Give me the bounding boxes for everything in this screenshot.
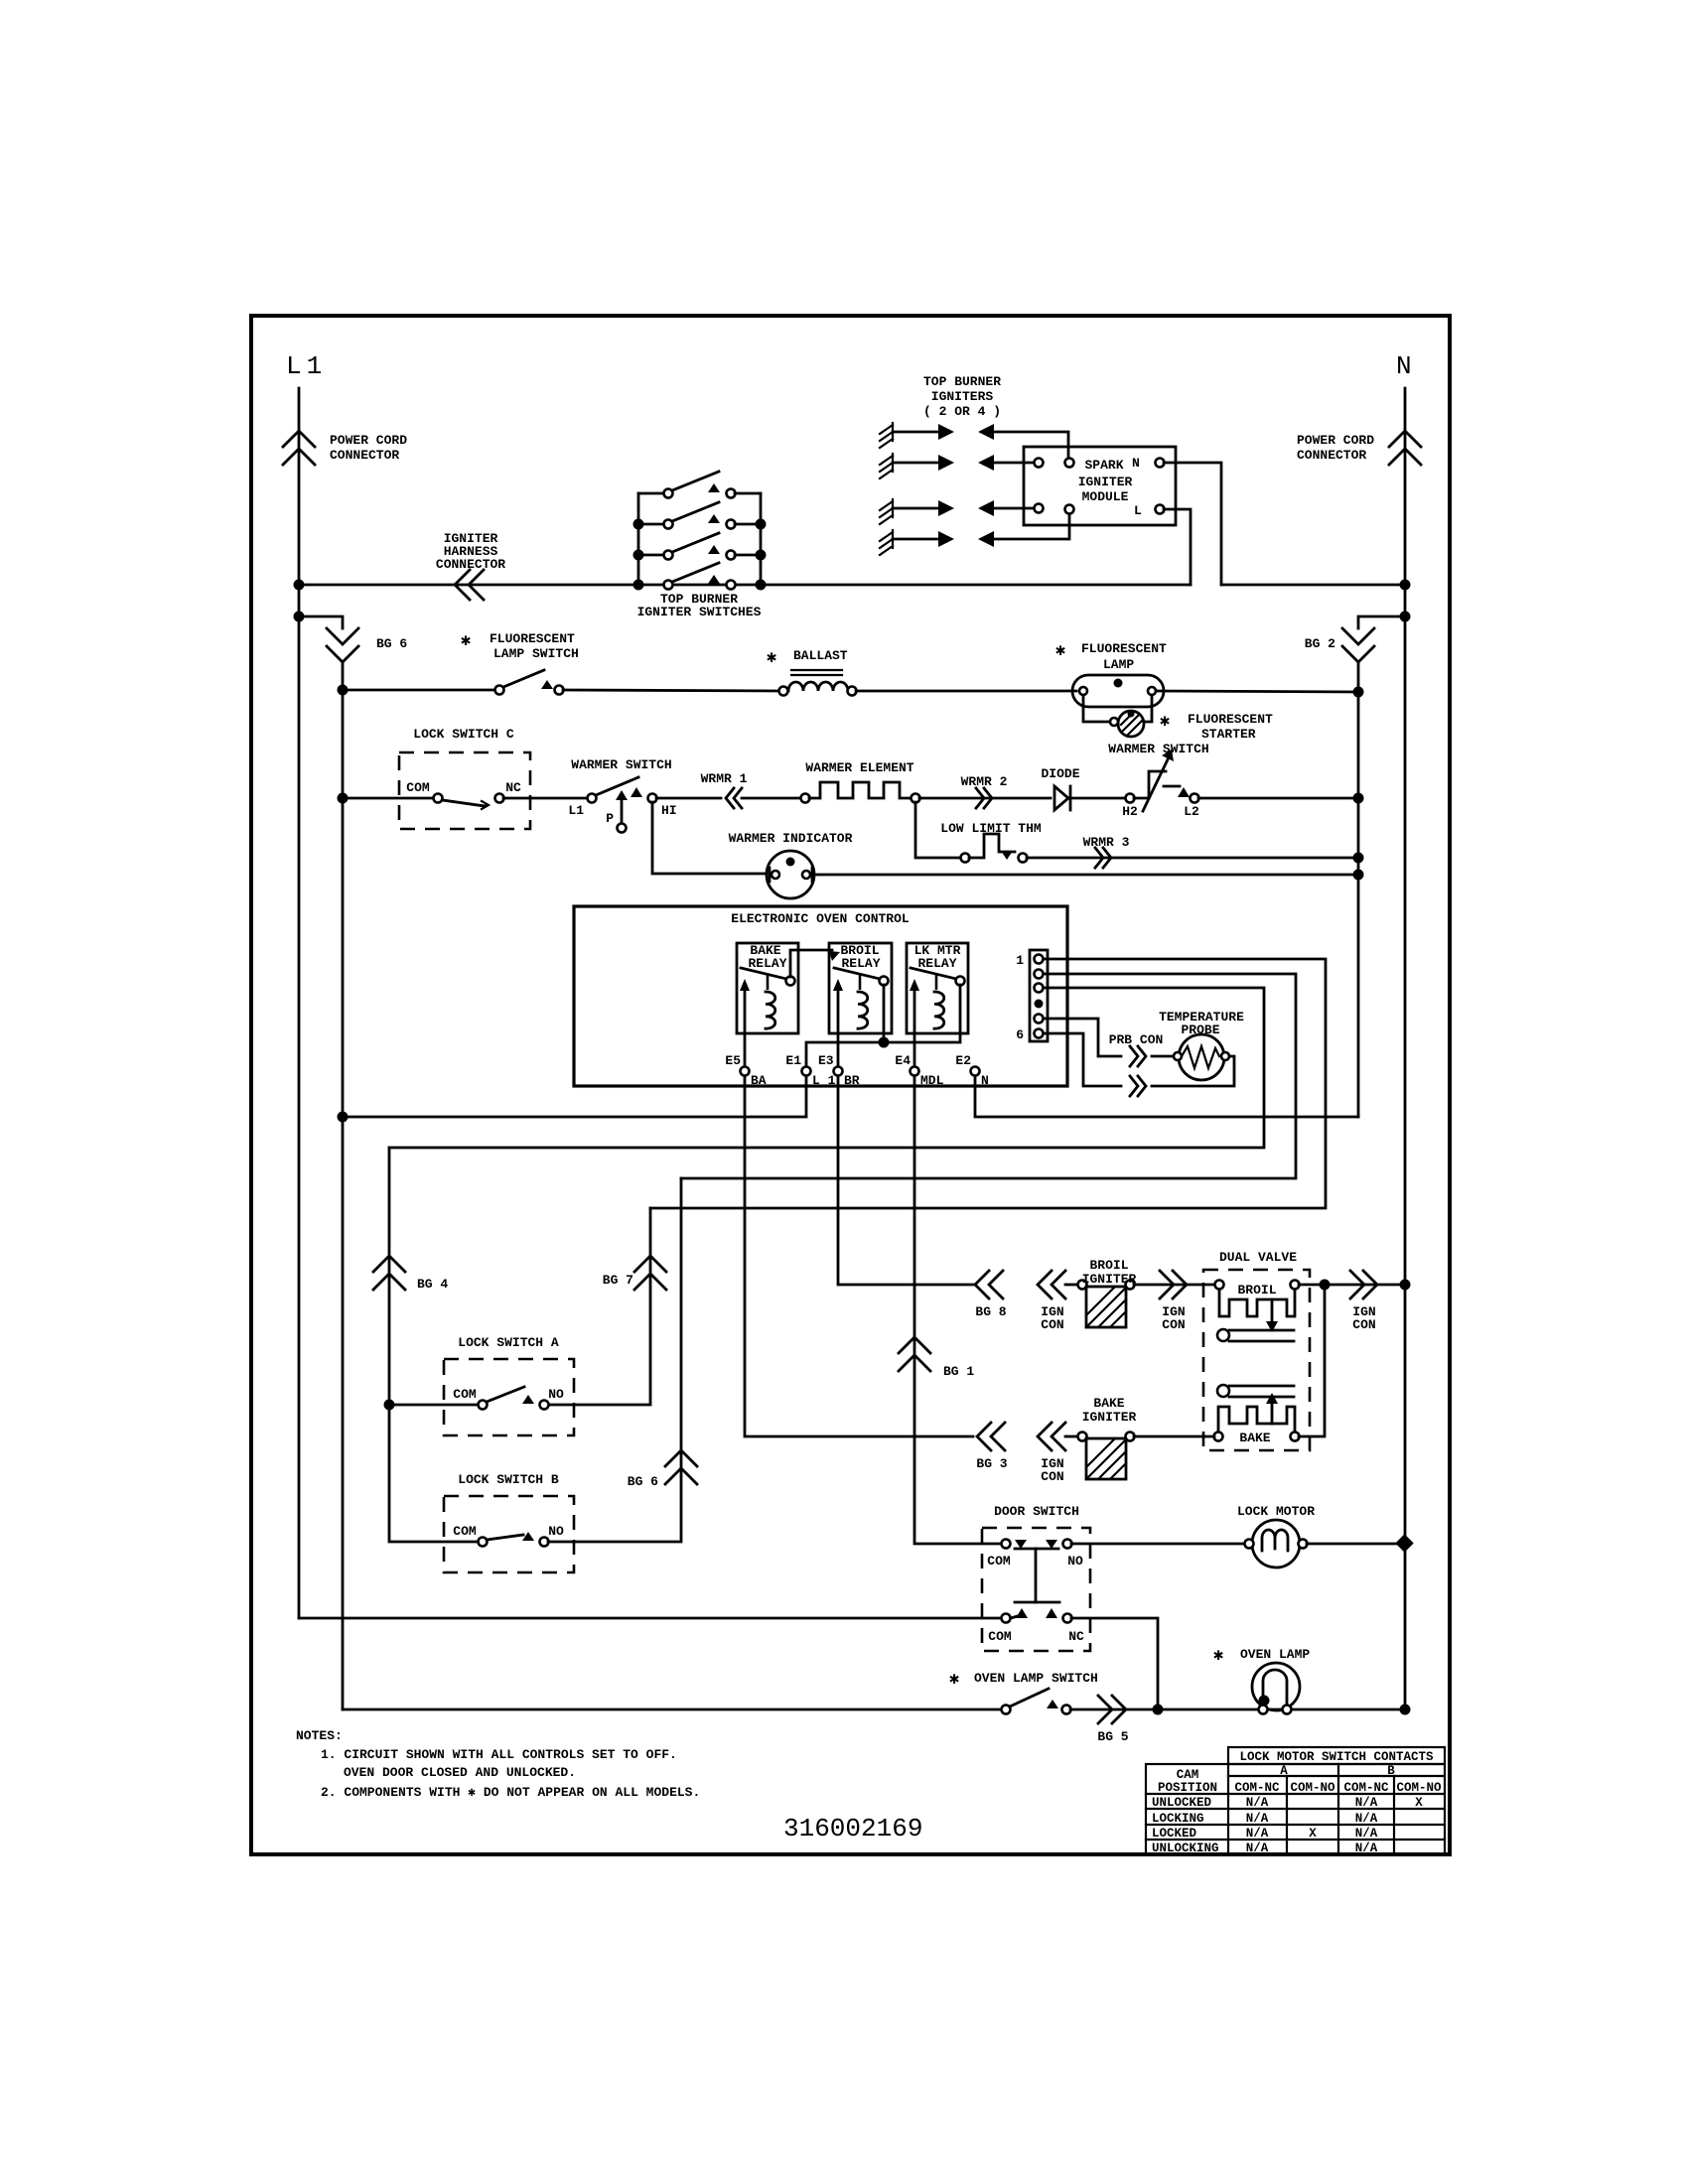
lock motor switch contacts table <box>1146 1747 1445 1855</box>
svg-text:LOCK SWITCH B: LOCK SWITCH B <box>458 1472 559 1487</box>
warmer indicator lamp <box>767 851 814 898</box>
svg-text:316002169: 316002169 <box>783 1814 922 1843</box>
svg-text:N/A: N/A <box>1355 1842 1378 1855</box>
svg-text:WARMER SWITCH: WARMER SWITCH <box>571 757 671 772</box>
wire bake relay to broil relay pivot <box>790 950 832 977</box>
svg-text:COM-NO: COM-NO <box>1290 1781 1335 1795</box>
connector IGN CON (bake in) <box>1038 1423 1052 1450</box>
bake igniter (hatched) <box>1078 1433 1087 1441</box>
svg-text:✱: ✱ <box>1160 713 1170 732</box>
wire pin1 to BG7 <box>650 959 1326 1208</box>
svg-text:RELAY: RELAY <box>748 956 786 971</box>
svg-text:NO: NO <box>1067 1554 1083 1569</box>
svg-text:E2: E2 <box>955 1053 971 1068</box>
low limit thermostat <box>961 854 970 863</box>
wire E4/MDL riser through BG1 to door switch <box>914 1076 1001 1544</box>
wire indicator to BG2 bus <box>814 874 1358 877</box>
svg-text:STARTER: STARTER <box>1201 727 1256 742</box>
svg-text:IGNITER: IGNITER <box>1082 1410 1137 1425</box>
svg-text:BAKE: BAKE <box>1239 1431 1270 1445</box>
wire HI to warmer indicator <box>652 802 767 874</box>
svg-text:LAMP SWITCH: LAMP SWITCH <box>493 646 579 661</box>
svg-text:COM: COM <box>453 1524 477 1539</box>
power cord connector (N) <box>1389 431 1421 447</box>
svg-text:E4: E4 <box>895 1053 911 1068</box>
svg-text:BG 6: BG 6 <box>376 636 407 651</box>
svg-text:CONNECTOR: CONNECTOR <box>1297 448 1366 463</box>
wire pin5 to probe <box>1044 1019 1121 1056</box>
svg-text:CON: CON <box>1041 1469 1063 1484</box>
svg-text:LOW LIMIT THM: LOW LIMIT THM <box>940 821 1042 836</box>
wire bake valve out riser <box>1299 1285 1325 1436</box>
wire L1 bus to EOC L1 terminal <box>338 1112 349 1123</box>
svg-text:N/A: N/A <box>1246 1812 1269 1826</box>
svg-text:PROBE: PROBE <box>1181 1023 1219 1037</box>
door switch lower contacts <box>1002 1614 1011 1623</box>
svg-text:NC: NC <box>505 780 521 795</box>
spark igniter module U1 <box>1024 447 1176 525</box>
connector BG 4 <box>373 1256 405 1272</box>
svg-text:COM: COM <box>453 1387 477 1402</box>
broil valve coil <box>1215 1281 1224 1290</box>
connector BG 7 <box>634 1256 666 1272</box>
wire to ballast <box>563 690 779 691</box>
wire lock B NO riser through BG6 <box>548 1178 681 1542</box>
door switch (dashed box) <box>982 1528 1090 1651</box>
connector BG 1 <box>899 1337 930 1353</box>
broil relay K2 <box>829 943 892 1033</box>
wire ballast to fluorescent lamp <box>856 690 1076 693</box>
svg-text:E1: E1 <box>785 1053 801 1068</box>
connector BG 5 <box>1070 1708 1154 1711</box>
svg-text:MODULE: MODULE <box>1082 489 1129 504</box>
fluorescent lamp <box>1072 675 1164 707</box>
connector PRB CON <box>1130 1046 1138 1066</box>
svg-text:BG 1: BG 1 <box>943 1364 974 1379</box>
wire E3/BR riser to broil igniter <box>838 1076 973 1285</box>
svg-text:N/A: N/A <box>1246 1796 1269 1810</box>
svg-text:RELAY: RELAY <box>917 956 956 971</box>
warmer element (resistor) <box>801 794 810 803</box>
svg-text:BG 4: BG 4 <box>417 1277 448 1292</box>
svg-text:L1: L1 <box>568 803 584 818</box>
node junction warmer line left <box>338 793 349 804</box>
broil igniter (hatched) <box>1078 1281 1087 1290</box>
connector BG 6 <box>327 628 358 644</box>
connector IGN CON (broil in) <box>1038 1271 1052 1298</box>
svg-text:OVEN DOOR CLOSED AND UNLOCKED.: OVEN DOOR CLOSED AND UNLOCKED. <box>344 1765 576 1780</box>
dual valve (dashed box) <box>1203 1270 1310 1450</box>
power cord connector (L1) <box>283 431 315 447</box>
wire N segment <box>1221 584 1405 587</box>
wire low limit branch <box>915 802 961 858</box>
svg-text:BR: BR <box>844 1073 860 1088</box>
svg-text:WRMR 2: WRMR 2 <box>961 774 1008 789</box>
svg-text:6: 6 <box>1016 1027 1024 1042</box>
svg-text:POWER CORD: POWER CORD <box>330 433 407 448</box>
svg-text:LOCKED: LOCKED <box>1152 1827 1197 1841</box>
lock switch A <box>444 1359 574 1435</box>
node junction L1 <box>294 580 305 591</box>
wire pin2 to BG8 <box>681 974 1296 1178</box>
wire N main vertical <box>1404 388 1407 1709</box>
svg-text:LOCK MOTOR SWITCH CONTACTS: LOCK MOTOR SWITCH CONTACTS <box>1239 1750 1434 1764</box>
svg-text:LOCK SWITCH A: LOCK SWITCH A <box>458 1335 559 1350</box>
switch SW3 row <box>638 554 664 557</box>
svg-text:NC: NC <box>1068 1629 1084 1644</box>
svg-text:IGNITERS: IGNITERS <box>931 389 994 404</box>
ballast (inductor) <box>779 687 788 696</box>
svg-text:L1: L1 <box>286 351 327 381</box>
switch SW4 row <box>664 581 673 590</box>
wire BG4 riser to lock switches COM <box>389 1148 478 1542</box>
wire door NC drop to oven lamp line <box>1071 1618 1158 1709</box>
svg-text:( 2 OR 4 ): ( 2 OR 4 ) <box>923 404 1001 419</box>
connector WRMR 2 <box>919 797 1051 800</box>
svg-text:NO: NO <box>548 1524 564 1539</box>
svg-text:OVEN LAMP: OVEN LAMP <box>1240 1647 1310 1662</box>
igniter electrode row3 <box>880 499 1034 524</box>
fluorescent lamp switch <box>495 686 504 695</box>
svg-text:N/A: N/A <box>1355 1796 1378 1810</box>
connector BG 3 <box>977 1423 991 1450</box>
bake valve coil <box>1214 1433 1223 1441</box>
svg-text:COM: COM <box>406 780 430 795</box>
svg-text:N/A: N/A <box>1246 1827 1269 1841</box>
svg-text:CON: CON <box>1352 1317 1375 1332</box>
lock switch C (dashed box) <box>399 752 530 829</box>
svg-text:LAMP: LAMP <box>1103 657 1134 672</box>
svg-text:BG 8: BG 8 <box>975 1304 1006 1319</box>
top burner igniter switches right bus <box>760 493 763 585</box>
svg-text:COM: COM <box>987 1554 1011 1569</box>
svg-text:BALLAST: BALLAST <box>793 648 848 663</box>
svg-text:CAM: CAM <box>1177 1768 1199 1782</box>
svg-text:N/A: N/A <box>1355 1827 1378 1841</box>
svg-text:PRB CON: PRB CON <box>1109 1032 1164 1047</box>
border frame <box>251 316 1450 1854</box>
connector WRMR 1 <box>726 788 734 808</box>
svg-text:HI: HI <box>661 803 677 818</box>
wire lock C to warmer switch <box>503 797 587 800</box>
temperature probe RT1 <box>1179 1034 1224 1080</box>
svg-text:BG 5: BG 5 <box>1097 1729 1128 1744</box>
lock switch B <box>444 1496 574 1572</box>
wire BG6 bus vertical <box>342 662 345 1709</box>
wire L1 main vertical <box>298 388 301 1618</box>
switch SW2 row <box>638 523 664 526</box>
svg-text:WARMER ELEMENT: WARMER ELEMENT <box>805 760 913 775</box>
connector BG 8 <box>975 1271 989 1298</box>
terminal E5/BA <box>741 1067 750 1076</box>
lk mtr relay K3 <box>907 943 968 1033</box>
svg-text:OVEN LAMP SWITCH: OVEN LAMP SWITCH <box>974 1671 1098 1686</box>
svg-text:UNLOCKING: UNLOCKING <box>1152 1842 1219 1855</box>
wire L1 bus horizontal <box>299 584 1191 587</box>
svg-text:LOCK SWITCH C: LOCK SWITCH C <box>413 727 514 742</box>
svg-text:BROIL: BROIL <box>1237 1283 1276 1297</box>
diode D1 <box>1054 786 1068 810</box>
svg-text:E5: E5 <box>725 1053 741 1068</box>
svg-text:DIODE: DIODE <box>1041 766 1079 781</box>
wire EOC N terminal to BG2 bus <box>975 1076 1358 1117</box>
svg-text:BG 6: BG 6 <box>628 1474 658 1489</box>
wire pin3 to BG4 <box>389 988 1264 1148</box>
broil gas tube <box>1217 1329 1229 1341</box>
svg-text:LOCKING: LOCKING <box>1152 1812 1204 1826</box>
svg-text:LOCK MOTOR: LOCK MOTOR <box>1237 1504 1315 1519</box>
wire HI to warmer element <box>656 797 721 800</box>
wire broil out to N <box>1299 1284 1401 1287</box>
svg-text:IGNITER: IGNITER <box>1078 475 1133 489</box>
svg-text:N: N <box>1396 351 1412 381</box>
terminal E1/L1 <box>802 1067 811 1076</box>
svg-text:NOTES:: NOTES: <box>296 1728 343 1743</box>
svg-text:FLUORESCENT: FLUORESCENT <box>1081 641 1167 656</box>
warmer pilot switch H2/L2 <box>1126 794 1135 803</box>
svg-text:BG 3: BG 3 <box>976 1456 1007 1471</box>
electronic oven control box <box>574 906 1067 1086</box>
svg-text:2. COMPONENTS WITH ✱ DO NOT AP: 2. COMPONENTS WITH ✱ DO NOT APPEAR ON AL… <box>321 1785 700 1800</box>
wire L2 to BG2 bus <box>1198 797 1358 800</box>
svg-text:IGNITER SWITCHES: IGNITER SWITCHES <box>637 605 762 619</box>
svg-text:WARMER SWITCH: WARMER SWITCH <box>1108 742 1208 756</box>
svg-text:IGNITER: IGNITER <box>1082 1272 1137 1287</box>
wire BG2 bus vertical <box>1357 662 1360 1117</box>
switch SW1 row <box>638 492 664 495</box>
svg-text:RELAY: RELAY <box>841 956 880 971</box>
svg-text:E3: E3 <box>818 1053 834 1068</box>
svg-text:X: X <box>1415 1796 1423 1810</box>
terminal E3/BR <box>834 1067 843 1076</box>
svg-text:FLUORESCENT: FLUORESCENT <box>490 631 575 646</box>
bake gas tube <box>1217 1385 1229 1397</box>
igniter harness connector <box>455 570 470 600</box>
wire E5/BA riser to bake igniter <box>745 1076 973 1436</box>
svg-text:P: P <box>606 811 614 826</box>
svg-text:N: N <box>981 1073 989 1088</box>
svg-text:DUAL VALVE: DUAL VALVE <box>1219 1250 1297 1265</box>
svg-text:BG 7: BG 7 <box>603 1273 633 1288</box>
node junction BG6/fluor <box>338 685 349 696</box>
svg-text:DOOR SWITCH: DOOR SWITCH <box>994 1504 1079 1519</box>
svg-text:✱: ✱ <box>949 1671 959 1690</box>
svg-text:BAKE: BAKE <box>1093 1396 1124 1411</box>
svg-text:L 1: L 1 <box>812 1073 836 1088</box>
svg-text:TOP BURNER: TOP BURNER <box>923 374 1001 389</box>
terminal E2/N <box>971 1067 980 1076</box>
svg-text:N: N <box>1132 456 1140 471</box>
connector IGN CON (valve out) <box>1350 1271 1364 1298</box>
connector BG 6 (lock B) <box>665 1450 697 1466</box>
svg-text:1: 1 <box>1016 953 1024 968</box>
svg-text:SPARK: SPARK <box>1084 458 1123 473</box>
wire door NO to lock motor <box>1071 1543 1244 1546</box>
svg-text:COM-NC: COM-NC <box>1234 1781 1280 1795</box>
svg-text:BA: BA <box>751 1073 767 1088</box>
svg-text:WRMR 1: WRMR 1 <box>701 771 748 786</box>
wire bake igniter to valve <box>1134 1435 1214 1438</box>
wire fluorescent branch <box>343 689 495 692</box>
svg-text:COM-NO: COM-NO <box>1396 1781 1442 1795</box>
svg-text:✱: ✱ <box>1055 642 1065 661</box>
igniter electrode row2 <box>880 454 1034 478</box>
svg-text:1. CIRCUIT SHOWN WITH ALL CONT: 1. CIRCUIT SHOWN WITH ALL CONTROLS SET T… <box>321 1747 677 1762</box>
wire lock motor to N <box>1307 1543 1405 1546</box>
wire L1 bus inside EOC <box>806 985 960 1071</box>
svg-text:NO: NO <box>548 1387 564 1402</box>
svg-text:L2: L2 <box>1184 804 1199 819</box>
svg-text:COM-NC: COM-NC <box>1343 1781 1389 1795</box>
svg-text:CON: CON <box>1162 1317 1185 1332</box>
svg-text:X: X <box>1309 1827 1317 1841</box>
connector BG 2 <box>1342 628 1374 644</box>
top burner igniter switches left bus <box>637 493 640 585</box>
svg-text:H2: H2 <box>1122 804 1138 819</box>
wire N to BG2 branch <box>1400 612 1411 622</box>
svg-text:B: B <box>1387 1764 1395 1778</box>
svg-text:POWER CORD: POWER CORD <box>1297 433 1374 448</box>
door switch upper contacts <box>1002 1540 1011 1549</box>
wire L1 to door switch lower COM <box>299 1617 1001 1620</box>
svg-text:L: L <box>1134 503 1142 518</box>
svg-text:ELECTRONIC OVEN CONTROL: ELECTRONIC OVEN CONTROL <box>731 911 910 926</box>
wire BG7 riser to lock switch A NO <box>548 1208 650 1405</box>
svg-text:CONNECTOR: CONNECTOR <box>330 448 399 463</box>
svg-text:COM: COM <box>988 1629 1012 1644</box>
svg-text:✱: ✱ <box>1213 1647 1223 1666</box>
connector WRMR 3 <box>1027 857 1358 860</box>
connector IGN CON (broil out) <box>1134 1284 1215 1287</box>
svg-text:UNLOCKED: UNLOCKED <box>1152 1796 1212 1810</box>
svg-text:N/A: N/A <box>1246 1842 1269 1855</box>
svg-text:POSITION: POSITION <box>1158 1781 1217 1795</box>
EOC terminal strip <box>1030 950 1048 1041</box>
wire module N to N bus <box>1164 463 1221 585</box>
wire warmer line to lock switch C <box>343 797 433 800</box>
svg-text:BG 2: BG 2 <box>1305 636 1335 651</box>
terminal E4/MDL <box>911 1067 919 1076</box>
svg-text:✱: ✱ <box>461 632 471 651</box>
svg-text:FLUORESCENT: FLUORESCENT <box>1188 712 1273 727</box>
wire module L to L1 bus <box>1164 509 1191 585</box>
igniter electrode row1 <box>880 423 1068 459</box>
wire lamp to BG2 bus <box>1156 691 1358 692</box>
wire L1 to BG6 branch <box>294 612 305 622</box>
svg-text:CONNECTOR: CONNECTOR <box>436 557 505 572</box>
fluorescent starter <box>1083 695 1112 722</box>
bake relay K1 <box>737 943 798 1033</box>
svg-text:A: A <box>1280 1764 1288 1778</box>
svg-text:WRMR 3: WRMR 3 <box>1083 835 1130 850</box>
svg-text:N/A: N/A <box>1355 1812 1378 1826</box>
wire pin6 to probe return <box>1044 1033 1121 1086</box>
igniter electrode row4 <box>880 513 1069 555</box>
svg-text:WARMER INDICATOR: WARMER INDICATOR <box>729 831 853 846</box>
svg-text:BROIL: BROIL <box>1089 1258 1128 1273</box>
svg-text:MDL: MDL <box>920 1073 944 1088</box>
svg-text:CON: CON <box>1041 1317 1063 1332</box>
svg-text:✱: ✱ <box>767 649 776 668</box>
